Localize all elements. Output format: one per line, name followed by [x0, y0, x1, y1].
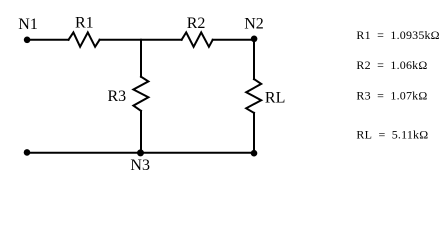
svg-text:R1: R1	[75, 14, 94, 31]
svg-text:R3: R3	[108, 88, 127, 105]
svg-text:R3 = 1.07kΩ: R3 = 1.07kΩ	[356, 89, 427, 103]
wire R2 to N2	[213, 39, 254, 41]
node N1 terminal dot	[24, 37, 31, 44]
wire top junction to R3	[140, 40, 142, 77]
resistor RL	[246, 79, 261, 113]
resistor R2	[182, 32, 213, 46]
resistor R3	[133, 77, 148, 111]
wire N1 to R1	[27, 39, 69, 41]
resistor R1	[69, 32, 100, 46]
wire R3 to node N3	[140, 111, 142, 153]
wire R1 to R2	[100, 39, 182, 41]
wire RL to bottom wire	[253, 113, 255, 153]
wire N2 to RL	[253, 40, 255, 79]
bottom right junction dot	[251, 150, 258, 157]
svg-text:R2 = 1.06kΩ: R2 = 1.06kΩ	[356, 58, 427, 72]
bottom left terminal dot	[24, 149, 31, 156]
svg-text:N1: N1	[18, 16, 38, 33]
svg-text:R1 = 1.0935kΩ: R1 = 1.0935kΩ	[356, 28, 439, 42]
svg-text:N2: N2	[244, 15, 264, 32]
node N3 junction dot	[137, 149, 144, 156]
node N2 terminal dot	[251, 36, 258, 43]
svg-text:R2: R2	[187, 15, 206, 32]
svg-text:RL = 5.11kΩ: RL = 5.11kΩ	[356, 127, 428, 141]
bottom wire	[27, 152, 254, 154]
svg-text:RL: RL	[265, 89, 285, 106]
svg-text:N3: N3	[130, 157, 150, 174]
